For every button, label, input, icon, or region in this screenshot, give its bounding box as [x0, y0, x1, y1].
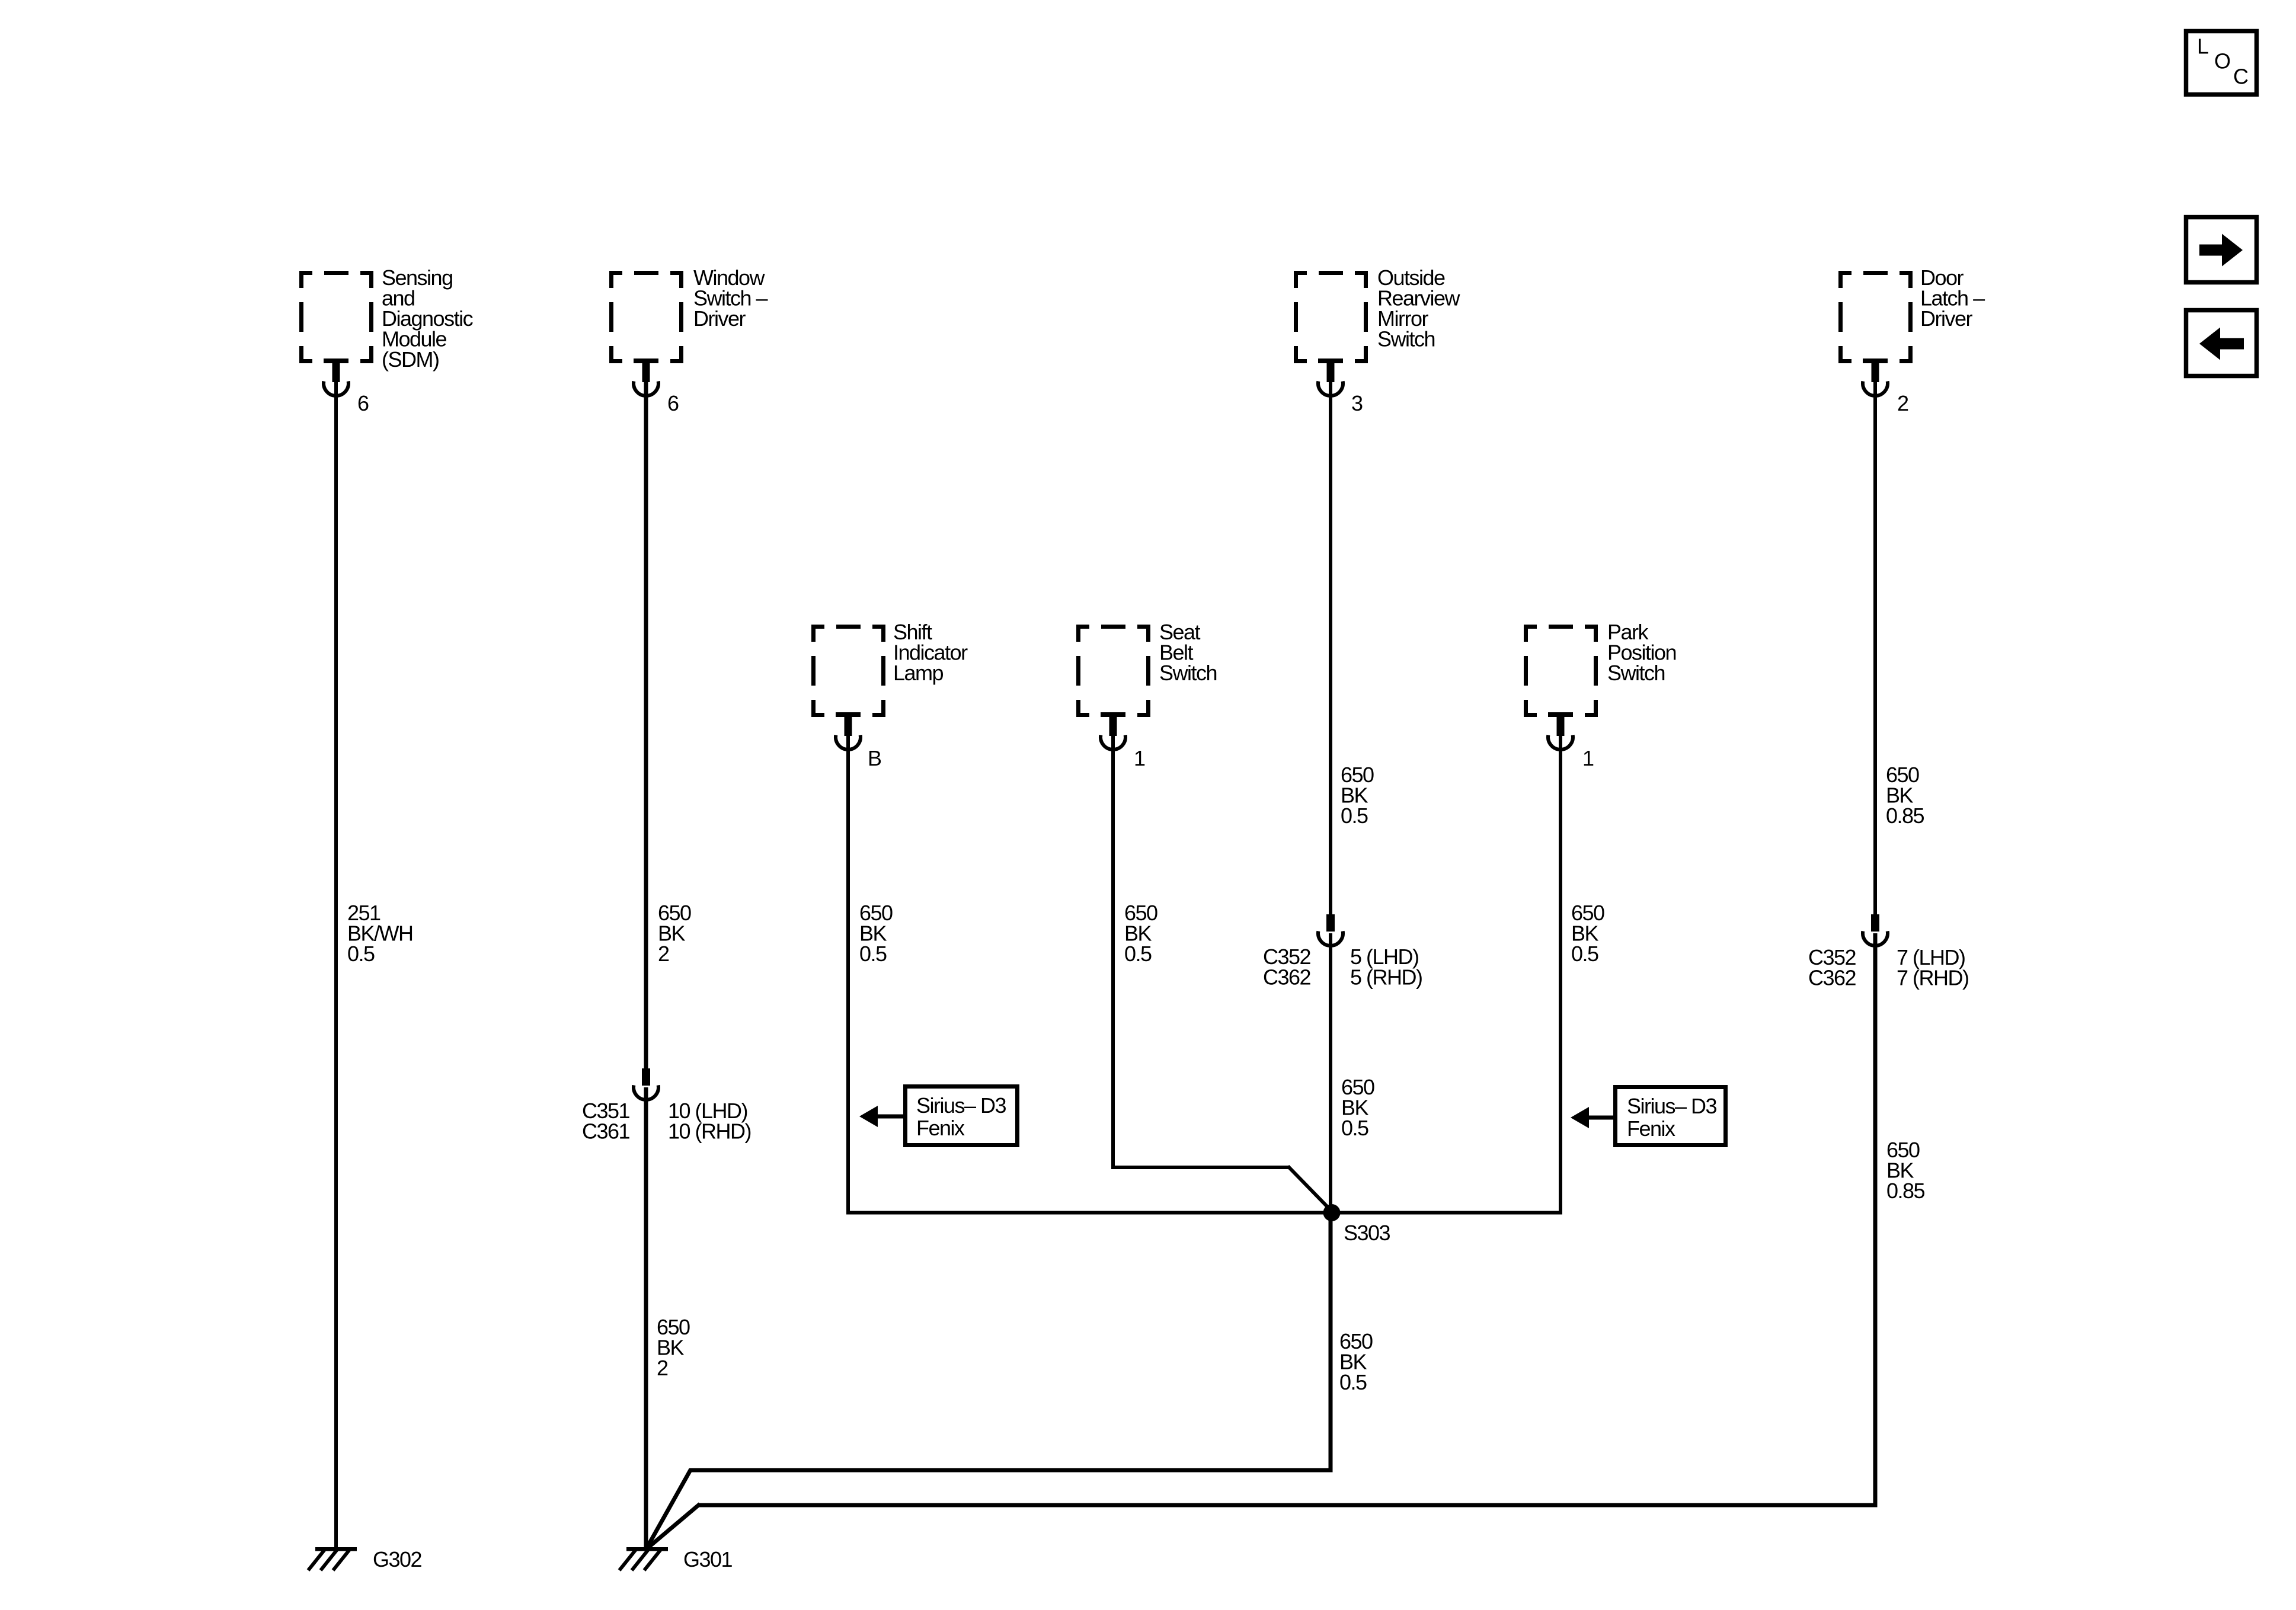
- component box: Outside Rearview Mirror Switch: [1294, 271, 1368, 363]
- Park Position Switch label text: [1607, 620, 1676, 685]
- wire 650 BK 2 (Window Switch pin 6 to C351): [644, 382, 648, 1070]
- wire door latch bus horizontal to G301: [699, 1503, 1878, 1507]
- svg-text:3: 3: [1351, 391, 1363, 415]
- svg-text:G301: G301: [683, 1547, 733, 1571]
- Sirius callout arrow (right): [1571, 1107, 1616, 1128]
- svg-text:5 (RHD): 5 (RHD): [1350, 965, 1422, 989]
- wire 251 BK/WH 0.5 (SDM pin 6 to G302): [334, 382, 338, 1548]
- component box: Seat Belt Switch: [1076, 625, 1150, 717]
- wire label 650 BK 0.5 (above S303): [1341, 1075, 1374, 1140]
- svg-text:C362: C362: [1808, 965, 1856, 990]
- wire label 251 BK/WH 0.5: [347, 901, 413, 966]
- connector pin label 7 (LHD)/7 (RHD): [1897, 945, 1969, 990]
- wire 650 BK 0.85 (Door Latch pin 2 to C352): [1873, 382, 1877, 916]
- svg-text:Fenix: Fenix: [1627, 1116, 1675, 1141]
- svg-text:2: 2: [658, 942, 669, 966]
- svg-text:1: 1: [1582, 746, 1594, 770]
- wire label 650 BK 2 (lower): [657, 1315, 690, 1380]
- Seat Belt Switch connector pin: [1101, 712, 1125, 750]
- svg-text:Sirius– D3: Sirius– D3: [916, 1093, 1006, 1118]
- wire 650 BK 2 (C351 to G301): [644, 1087, 648, 1548]
- in-line connector C352/C362 pin 5: [1318, 914, 1343, 946]
- wire label 650 BK 0.5 (shift lamp): [859, 901, 893, 966]
- wire S303 bus horizontal to G301: [690, 1468, 1333, 1473]
- ground G302: [308, 1547, 357, 1570]
- Shift Indicator Lamp connector pin: [836, 712, 861, 750]
- Door Latch connector pin: [1863, 359, 1888, 396]
- svg-text:Lamp: Lamp: [893, 661, 944, 685]
- wire door latch bus diagonal into G301: [647, 1504, 700, 1548]
- connector label C351/C361: [582, 1099, 630, 1144]
- svg-text:Switch: Switch: [1159, 661, 1217, 685]
- svg-text:0.5: 0.5: [1571, 942, 1598, 966]
- Sirius-D3 Fenix callout box (right): [1616, 1087, 1726, 1145]
- LOC legend box: [2186, 31, 2257, 95]
- wire 650 BK 0.5 (Seat Belt Switch pin 1 down): [1111, 736, 1115, 1169]
- wire seat belt horizontal run: [1111, 1166, 1289, 1169]
- svg-text:Switch: Switch: [1377, 327, 1435, 351]
- left arrow icon: [2199, 328, 2244, 360]
- ground G301: [619, 1547, 668, 1570]
- svg-text:Sirius– D3: Sirius– D3: [1627, 1094, 1717, 1118]
- wire 650 BK 0.85 (C352 down to bus): [1873, 933, 1878, 1507]
- svg-text:Switch: Switch: [1607, 661, 1665, 685]
- svg-text:7 (RHD): 7 (RHD): [1897, 965, 1969, 990]
- in-line connector C351/C361 pin 10: [634, 1068, 658, 1100]
- wire label 650 BK 0.5 (ORM upper): [1341, 763, 1374, 828]
- Window Switch connector pin: [634, 359, 658, 396]
- svg-text:0.5: 0.5: [1339, 1370, 1367, 1394]
- component box: Window Switch - Driver: [609, 271, 683, 363]
- wire label 650 BK 0.5 (seat belt): [1124, 901, 1157, 966]
- svg-text:Driver: Driver: [693, 306, 746, 331]
- wire S303 bus diagonal into G301: [647, 1469, 691, 1547]
- svg-text:L: L: [2197, 34, 2208, 59]
- right arrow icon: [2199, 234, 2243, 267]
- svg-text:0.5: 0.5: [1124, 942, 1152, 966]
- in-line connector C352/C362 pin 7: [1863, 914, 1888, 946]
- connector label C352/C362 (Door Latch): [1808, 945, 1856, 990]
- wire 650 BK 0.5 (S303 down): [1329, 1212, 1333, 1472]
- svg-text:Fenix: Fenix: [916, 1116, 965, 1140]
- Seat Belt Switch label text: [1159, 620, 1217, 685]
- svg-text:0.5: 0.5: [1341, 1116, 1368, 1140]
- wire 650 BK 0.5 (ORM pin 3 to C352): [1329, 382, 1332, 916]
- svg-text:2: 2: [657, 1356, 668, 1380]
- wire label 650 BK 2 (upper): [658, 901, 691, 966]
- Sirius callout arrow (left): [859, 1106, 905, 1127]
- ORM Switch label text: [1377, 265, 1461, 351]
- svg-text:C: C: [2233, 65, 2248, 89]
- wire horizontal bus shift-to-park: [848, 1211, 1560, 1215]
- connector pin label 10 (LHD)/10 (RHD): [668, 1099, 751, 1144]
- component box: Sensing and Diagnostic Module (SDM): [299, 271, 373, 363]
- SDM label text: [382, 265, 474, 372]
- wire 650 BK 0.5 (C352 to splice S303): [1329, 933, 1332, 1212]
- SDM connector pin: [324, 359, 348, 396]
- Shift Indicator Lamp label text: [893, 620, 968, 685]
- Sirius-D3 Fenix callout text (left): [916, 1093, 1006, 1140]
- svg-text:0.85: 0.85: [1886, 804, 1924, 828]
- svg-text:2: 2: [1897, 391, 1908, 415]
- Door Latch label text: [1920, 265, 1985, 331]
- component box: Door Latch - Driver: [1838, 271, 1913, 363]
- wire seat belt diagonal into S303: [1288, 1166, 1332, 1211]
- svg-text:B: B: [868, 746, 881, 770]
- legend arrow box (left): [2186, 311, 2257, 376]
- svg-text:0.5: 0.5: [1341, 804, 1368, 828]
- svg-text:Driver: Driver: [1920, 306, 1973, 331]
- Park Position Switch connector pin: [1548, 712, 1573, 750]
- svg-text:0.5: 0.5: [859, 942, 887, 966]
- Window Switch label text: [693, 265, 768, 331]
- ORM Switch connector pin: [1318, 359, 1343, 396]
- svg-text:6: 6: [357, 391, 369, 415]
- Sirius-D3 Fenix callout box (left): [906, 1087, 1018, 1145]
- connector pin label 5 (LHD)/5 (RHD): [1350, 945, 1422, 990]
- connector label C352/C362 (ORM): [1263, 945, 1311, 990]
- svg-text:(SDM): (SDM): [382, 347, 439, 372]
- svg-text:1: 1: [1134, 746, 1145, 770]
- svg-text:S303: S303: [1344, 1221, 1390, 1245]
- LOC legend letters: [2197, 34, 2248, 89]
- svg-text:10 (RHD): 10 (RHD): [668, 1119, 751, 1143]
- svg-text:0.85: 0.85: [1886, 1179, 1925, 1203]
- Sirius-D3 Fenix callout text (right): [1627, 1094, 1717, 1141]
- svg-text:O: O: [2214, 49, 2230, 73]
- wire 650 BK 0.5 (Shift Indicator Lamp pin B down): [846, 736, 850, 1215]
- wire 650 BK 0.5 (Park Position pin 1 down): [1559, 736, 1562, 1215]
- svg-text:C361: C361: [582, 1119, 630, 1143]
- splice S303 junction dot: [1323, 1204, 1341, 1221]
- wire label 650 BK 0.85 (lower): [1886, 1138, 1925, 1203]
- wire label 650 BK 0.85 (upper): [1886, 763, 1924, 828]
- svg-text:6: 6: [667, 391, 679, 415]
- component box: Park Position Switch: [1524, 625, 1598, 717]
- wire label 650 BK 0.5 (park): [1571, 901, 1604, 966]
- svg-text:C362: C362: [1263, 965, 1311, 989]
- component box: Shift Indicator Lamp: [811, 625, 885, 717]
- wire label 650 BK 0.5 (below S303): [1339, 1329, 1373, 1394]
- svg-text:G302: G302: [373, 1547, 422, 1571]
- legend arrow box (right): [2186, 217, 2257, 283]
- svg-text:0.5: 0.5: [347, 942, 375, 966]
